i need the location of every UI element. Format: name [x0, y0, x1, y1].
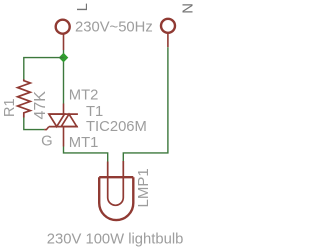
- wire N to lamp right pin: [123, 47, 168, 161]
- svg-text:230V 100W lightbulb: 230V 100W lightbulb: [47, 231, 184, 247]
- terminal L circle: [56, 20, 70, 34]
- wire junction to resistor top: [24, 58, 64, 80]
- svg-text:230V~50Hz: 230V~50Hz: [75, 20, 153, 36]
- resistor R1: [18, 79, 31, 117]
- svg-text:R1: R1: [2, 98, 18, 117]
- svg-text:N: N: [180, 3, 196, 14]
- triac MT1 pin: [63, 127, 65, 147]
- lamp LMP1 inner electrodes: [108, 161, 124, 205]
- svg-text:MT2: MT2: [69, 87, 99, 103]
- svg-text:LMP1: LMP1: [135, 168, 152, 207]
- pin of terminal N: [167, 33, 169, 47]
- svg-text:T1: T1: [86, 104, 103, 120]
- wire MT1 to lamp left pin: [64, 147, 108, 162]
- triac T1 up triangle: [61, 114, 77, 127]
- wire L down to triac MT2: [63, 50, 65, 104]
- svg-text:TIC206M: TIC206M: [86, 119, 147, 135]
- svg-text:MT1: MT1: [69, 135, 99, 151]
- lamp LMP1 bulb outline: [99, 177, 133, 220]
- svg-text:47K: 47K: [32, 91, 49, 120]
- svg-text:L: L: [75, 3, 91, 11]
- pin of terminal L: [63, 34, 65, 50]
- triac T1 gate lead: [44, 127, 49, 130]
- triac T1 top rail: [49, 113, 78, 115]
- triac T1 down triangle: [49, 114, 65, 127]
- junction: [59, 53, 69, 63]
- svg-text:G: G: [41, 133, 53, 149]
- triac MT2 pin: [63, 104, 65, 115]
- triac T1 bottom rail: [49, 126, 78, 128]
- wire resistor bottom to gate: [24, 118, 45, 130]
- terminal N circle: [161, 19, 175, 33]
